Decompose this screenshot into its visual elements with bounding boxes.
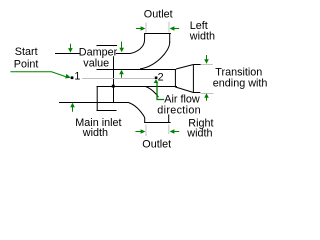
damper D1 lower frame — [97, 87, 117, 111]
extension line right-top (gray) — [201, 64, 213, 66]
leader air-flow (green, up arrow + elbow) — [154, 79, 159, 83]
label background Air flow — [159, 94, 201, 104]
svg-text:width: width — [189, 30, 215, 42]
extension line bottom-right (gray) — [168, 125, 170, 135]
dimension arrow main-inlet up (green) — [72, 106, 74, 112]
label background Damper — [80, 46, 116, 56]
extension line right-bottom (gray) — [200, 93, 213, 95]
wire: ending duct top wall — [193, 64, 200, 66]
wire: top branch inner edge — [140, 42, 170, 69]
dimension arrow top-right (green, points left) — [174, 28, 179, 30]
junction dot on bottom wall — [112, 85, 115, 88]
wire: ending duct bottom wall — [193, 92, 200, 94]
wire: top branch right wall — [169, 34, 171, 43]
svg-text:value: value — [83, 58, 109, 70]
dimension arrow right-bottom up (green) — [206, 97, 208, 101]
svg-text:Outlet: Outlet — [142, 138, 171, 150]
dimension arrow top-left (green, points right) — [136, 28, 141, 30]
wire: main body top line — [55, 53, 130, 55]
centerline (gray) — [82, 78, 155, 80]
node 2 marker — [155, 77, 158, 80]
wire: main duct bottom wall — [59, 102, 129, 104]
extension line top-right (gray) — [168, 22, 170, 33]
transition right edge — [192, 65, 194, 93]
svg-text:2: 2 — [158, 71, 164, 83]
dimension arrow bottom-right (green, points left) — [174, 131, 179, 133]
svg-text:ending with: ending with — [213, 77, 268, 89]
wire: bottom branch inner curve — [146, 87, 169, 123]
svg-text:1: 1 — [74, 70, 80, 82]
transition top slope — [176, 65, 193, 70]
svg-text:width: width — [186, 128, 212, 140]
dimension arrow bottom-left (green, points right) — [136, 131, 142, 133]
dimension arrow damper down (green) — [121, 42, 123, 49]
wire: top branch outer curve — [130, 34, 145, 54]
extension line top-left (gray) — [145, 23, 147, 33]
transition bottom slope — [176, 87, 194, 93]
wire: duct through bottom wall — [97, 86, 178, 88]
extension line bottom-left (gray) — [145, 125, 147, 137]
wire: top outlet mouth — [144, 33, 171, 35]
leader start-point (green) — [10, 72, 67, 78]
svg-text:width: width — [82, 127, 108, 139]
svg-text:Outlet: Outlet — [144, 8, 173, 20]
damper D1 shaft — [113, 46, 115, 103]
svg-text:Start: Start — [15, 46, 38, 58]
wire: bottom outlet mouth — [144, 122, 170, 124]
dimension arrow right-top down (green) — [206, 55, 208, 60]
damper D1 top bracket — [97, 46, 117, 49]
svg-text:Damper: Damper — [79, 46, 118, 58]
label background direction — [156, 103, 201, 114]
wire: duct top wall — [97, 69, 177, 71]
label background value — [83, 56, 109, 68]
wire: bottom branch outer curve — [129, 103, 145, 123]
dimension arrow damper up (green) — [121, 73, 123, 78]
transition left edge — [174, 70, 176, 88]
node 1 marker — [71, 76, 74, 79]
svg-text:Point: Point — [14, 58, 39, 70]
dimension arrow start-top down (green) — [70, 44, 72, 49]
svg-text:direction: direction — [157, 104, 201, 116]
